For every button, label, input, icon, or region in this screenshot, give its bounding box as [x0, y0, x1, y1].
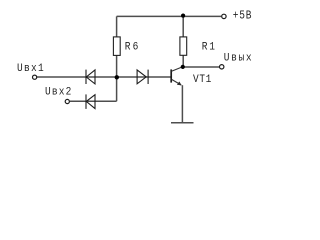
svg-text:1: 1	[209, 41, 215, 54]
svg-text:R: R	[202, 41, 208, 54]
svg-text:Uвых: Uвых	[224, 52, 254, 65]
svg-text:Uвх1: Uвх1	[17, 62, 45, 75]
svg-text:VT1: VT1	[193, 73, 212, 86]
svg-text:6: 6	[133, 41, 139, 54]
svg-text:R: R	[125, 41, 131, 54]
svg-text:Uвх2: Uвх2	[45, 86, 73, 99]
svg-text:+5В: +5В	[233, 10, 253, 23]
